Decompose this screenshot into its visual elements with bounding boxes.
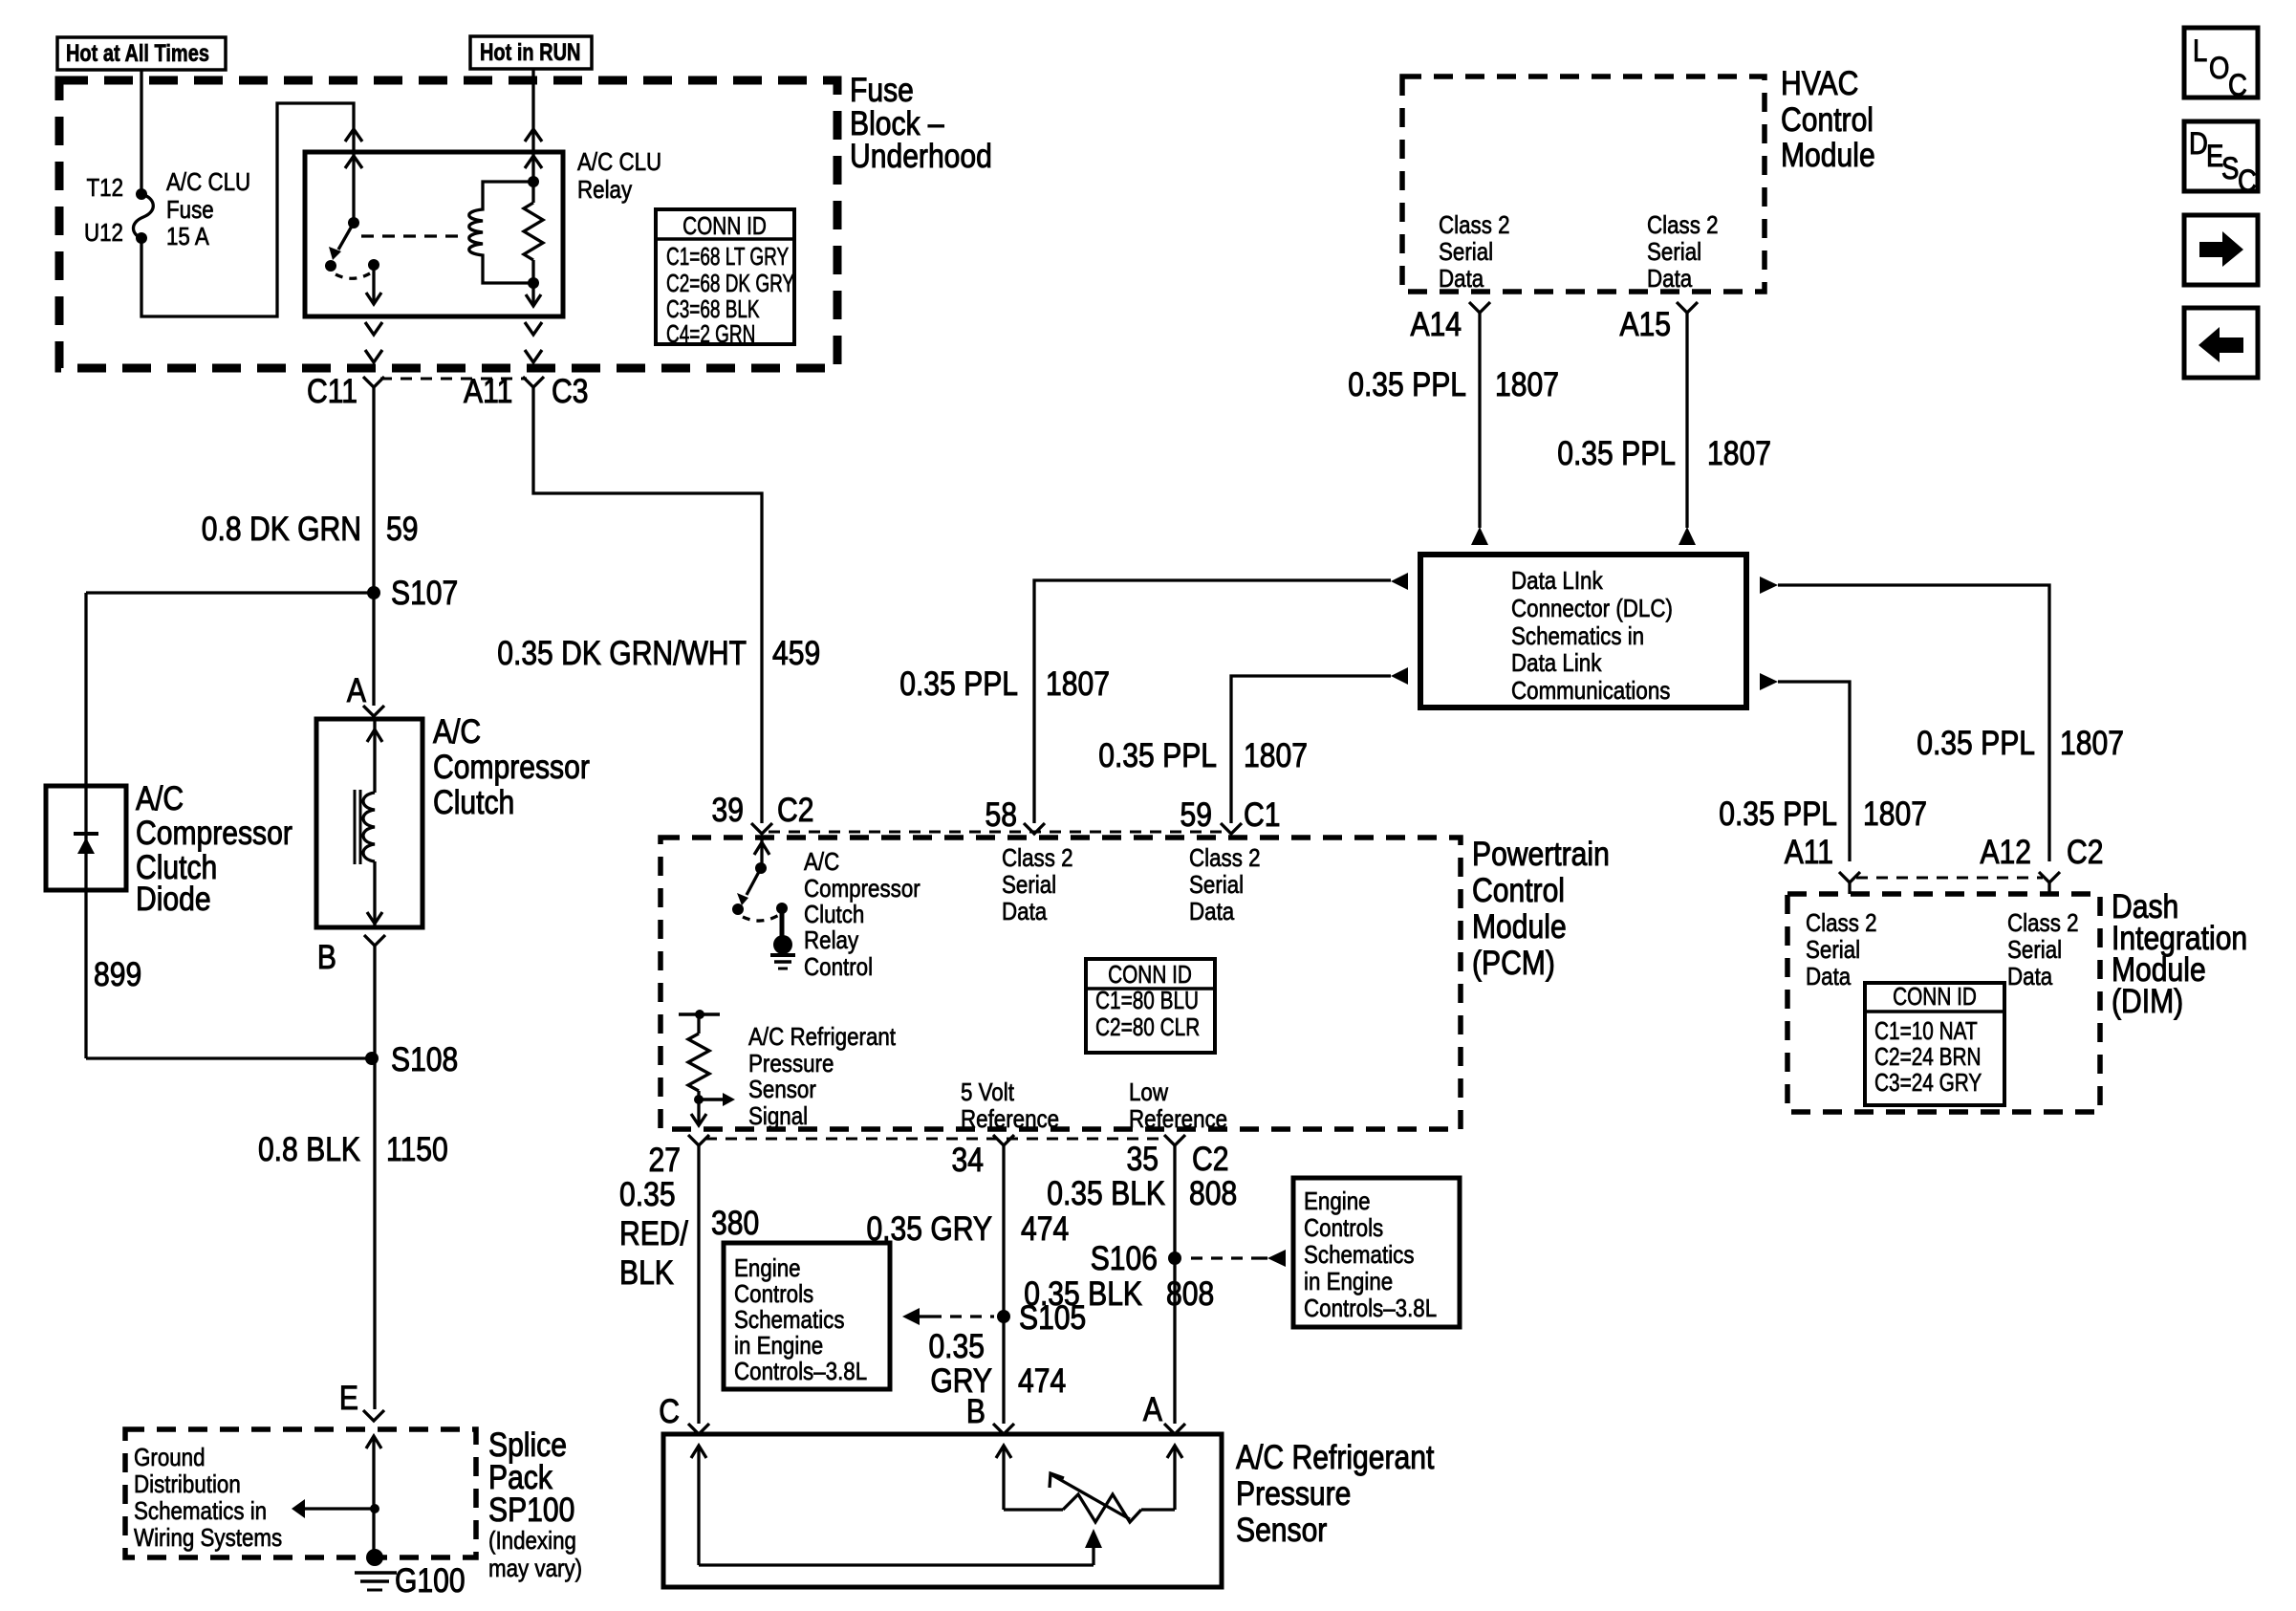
svg-text:Data: Data — [1189, 898, 1235, 925]
svg-text:Controls: Controls — [1304, 1214, 1383, 1242]
svg-text:G100: G100 — [395, 1561, 466, 1600]
svg-text:CONN ID: CONN ID — [1108, 961, 1192, 989]
svg-text:0.35 GRY: 0.35 GRY — [866, 1209, 992, 1248]
svg-text:Reference: Reference — [1129, 1105, 1227, 1133]
svg-text:(PCM): (PCM) — [1472, 944, 1555, 982]
svg-text:Control: Control — [804, 953, 873, 981]
svg-text:C1=68 LT GRY: C1=68 LT GRY — [666, 242, 789, 271]
svg-text:A/C: A/C — [136, 779, 184, 817]
svg-text:Ground: Ground — [134, 1444, 206, 1471]
svg-text:35: 35 — [1127, 1140, 1159, 1178]
svg-text:Reference: Reference — [961, 1105, 1059, 1133]
svg-text:Hot at All Times: Hot at All Times — [66, 40, 209, 67]
svg-text:808: 808 — [1189, 1174, 1237, 1212]
svg-text:Low: Low — [1129, 1078, 1168, 1106]
svg-text:474: 474 — [1021, 1209, 1069, 1248]
svg-text:Schematics in: Schematics in — [134, 1497, 267, 1525]
svg-text:Clutch: Clutch — [433, 783, 514, 821]
svg-text:A/C: A/C — [433, 712, 481, 751]
svg-text:in Engine: in Engine — [1304, 1268, 1393, 1295]
svg-text:Pressure: Pressure — [748, 1050, 834, 1078]
svg-text:474: 474 — [1018, 1361, 1066, 1400]
svg-text:C2=68 DK GRY: C2=68 DK GRY — [666, 269, 794, 297]
svg-text:C2=80 CLR: C2=80 CLR — [1095, 1013, 1200, 1041]
svg-text:Schematics: Schematics — [1304, 1241, 1415, 1269]
svg-text:0.35: 0.35 — [928, 1327, 985, 1365]
svg-text:A: A — [1143, 1390, 1162, 1428]
svg-text:may vary): may vary) — [488, 1555, 582, 1582]
svg-text:Sensor: Sensor — [1236, 1511, 1327, 1549]
svg-text:B: B — [966, 1392, 986, 1430]
svg-text:C: C — [659, 1392, 680, 1430]
svg-text:0.35 DK GRN/WHT: 0.35 DK GRN/WHT — [497, 634, 747, 672]
svg-text:Compressor: Compressor — [433, 748, 590, 786]
svg-text:459: 459 — [772, 634, 820, 672]
svg-text:0.8 BLK: 0.8 BLK — [258, 1130, 360, 1168]
svg-text:Class 2: Class 2 — [2007, 909, 2079, 937]
svg-text:Signal: Signal — [748, 1102, 808, 1130]
svg-text:Diode: Diode — [136, 880, 211, 918]
svg-text:Controls–3.8L: Controls–3.8L — [1304, 1295, 1437, 1322]
svg-text:59: 59 — [386, 510, 418, 548]
svg-text:C: C — [2228, 69, 2247, 102]
svg-text:Class 2: Class 2 — [1189, 844, 1261, 872]
svg-text:(Indexing: (Indexing — [488, 1527, 576, 1555]
svg-text:0.35 PPL: 0.35 PPL — [1348, 365, 1466, 403]
svg-text:Controls: Controls — [734, 1280, 813, 1308]
svg-text:1150: 1150 — [386, 1130, 448, 1168]
svg-text:A/C CLU: A/C CLU — [166, 168, 250, 196]
svg-text:S107: S107 — [391, 574, 458, 612]
svg-text:34: 34 — [952, 1141, 984, 1179]
svg-text:39: 39 — [712, 791, 744, 829]
svg-text:Engine: Engine — [1304, 1187, 1371, 1215]
svg-text:C1=10 NAT: C1=10 NAT — [1874, 1017, 1978, 1045]
svg-text:Powertrain: Powertrain — [1472, 835, 1610, 873]
svg-text:Data: Data — [1647, 265, 1693, 293]
svg-text:Class 2: Class 2 — [1002, 844, 1073, 872]
svg-text:1807: 1807 — [1046, 664, 1110, 703]
svg-text:Data: Data — [2007, 963, 2053, 991]
svg-text:T12: T12 — [86, 174, 123, 202]
svg-text:Relay: Relay — [577, 176, 633, 204]
svg-text:Pressure: Pressure — [1236, 1474, 1351, 1513]
svg-text:Serial: Serial — [1647, 238, 1701, 266]
svg-text:C2=24 BRN: C2=24 BRN — [1874, 1043, 1982, 1071]
svg-text:A/C CLU: A/C CLU — [577, 148, 661, 176]
svg-text:Serial: Serial — [1439, 238, 1493, 266]
svg-text:Connector (DLC): Connector (DLC) — [1511, 595, 1673, 622]
svg-text:Class 2: Class 2 — [1647, 211, 1719, 239]
svg-text:59: 59 — [1180, 795, 1212, 834]
svg-text:A/C Refrigerant: A/C Refrigerant — [1236, 1438, 1434, 1476]
svg-text:380: 380 — [711, 1204, 759, 1242]
svg-text:Engine: Engine — [734, 1254, 801, 1282]
svg-text:A/C: A/C — [804, 848, 839, 876]
svg-text:Fuse: Fuse — [850, 71, 914, 109]
svg-text:Control: Control — [1781, 100, 1874, 139]
svg-text:C1: C1 — [1244, 795, 1280, 834]
svg-text:C1=80 BLU: C1=80 BLU — [1095, 987, 1199, 1014]
svg-text:CONN ID: CONN ID — [682, 212, 767, 240]
svg-text:S: S — [2221, 152, 2239, 185]
svg-text:C4=2 GRN: C4=2 GRN — [666, 319, 755, 348]
svg-text:Sensor: Sensor — [748, 1076, 816, 1103]
svg-text:A15: A15 — [1619, 305, 1671, 343]
svg-text:D: D — [2189, 127, 2208, 161]
svg-text:0.35 PPL: 0.35 PPL — [1098, 736, 1217, 774]
svg-text:E: E — [339, 1379, 358, 1417]
svg-text:1807: 1807 — [1707, 434, 1771, 472]
svg-text:RED/: RED/ — [619, 1214, 689, 1252]
svg-text:SP100: SP100 — [488, 1491, 574, 1529]
svg-text:in Engine: in Engine — [734, 1332, 823, 1360]
svg-text:Serial: Serial — [1806, 936, 1860, 964]
svg-text:Compressor: Compressor — [136, 814, 292, 852]
svg-text:C2: C2 — [777, 791, 813, 829]
svg-text:1807: 1807 — [1495, 365, 1559, 403]
svg-text:0.35 BLK: 0.35 BLK — [1024, 1274, 1142, 1313]
svg-text:899: 899 — [94, 955, 141, 993]
svg-text:A/C Refrigerant: A/C Refrigerant — [748, 1023, 896, 1051]
svg-text:Data: Data — [1806, 963, 1852, 991]
svg-text:1807: 1807 — [1244, 736, 1308, 774]
svg-text:1807: 1807 — [2060, 724, 2124, 762]
svg-text:C2: C2 — [1192, 1140, 1228, 1178]
svg-text:Class 2: Class 2 — [1806, 909, 1877, 937]
svg-text:Data: Data — [1439, 265, 1484, 293]
svg-text:C3=24 GRY: C3=24 GRY — [1874, 1069, 1982, 1097]
svg-text:BLK: BLK — [619, 1253, 674, 1292]
svg-text:Compressor: Compressor — [804, 875, 921, 903]
svg-text:0.35 PPL: 0.35 PPL — [1917, 724, 2035, 762]
svg-text:15 A: 15 A — [166, 223, 210, 250]
svg-text:Fuse: Fuse — [166, 196, 214, 224]
svg-text:Module: Module — [1472, 907, 1567, 946]
svg-text:Communications: Communications — [1511, 677, 1670, 705]
svg-text:0.35 PPL: 0.35 PPL — [1719, 795, 1837, 833]
svg-text:A: A — [347, 671, 366, 709]
svg-text:Clutch: Clutch — [804, 901, 864, 928]
svg-text:Control: Control — [1472, 871, 1565, 909]
svg-text:5 Volt: 5 Volt — [961, 1078, 1014, 1106]
svg-text:Serial: Serial — [2007, 936, 2062, 964]
svg-text:Class 2: Class 2 — [1439, 211, 1510, 239]
svg-text:A11: A11 — [464, 372, 512, 410]
svg-text:Hot in RUN: Hot in RUN — [480, 39, 580, 66]
svg-text:Data Link: Data Link — [1511, 649, 1602, 677]
svg-text:A11: A11 — [1785, 833, 1833, 871]
svg-text:0.35: 0.35 — [619, 1175, 676, 1213]
svg-text:A14: A14 — [1410, 305, 1462, 343]
svg-text:S108: S108 — [391, 1040, 458, 1078]
svg-text:0.35 PPL: 0.35 PPL — [1557, 434, 1676, 472]
svg-text:B: B — [317, 938, 336, 976]
svg-text:(DIM): (DIM) — [2112, 982, 2183, 1020]
svg-text:Relay: Relay — [804, 926, 859, 954]
svg-text:Data LInk: Data LInk — [1511, 567, 1603, 595]
svg-text:Controls–3.8L: Controls–3.8L — [734, 1358, 867, 1385]
svg-text:O: O — [2209, 52, 2229, 85]
svg-text:L: L — [2193, 34, 2207, 68]
svg-text:S106: S106 — [1091, 1239, 1158, 1277]
svg-text:A12: A12 — [1980, 833, 2031, 871]
svg-text:CONN ID: CONN ID — [1893, 983, 1977, 1011]
svg-text:Underhood: Underhood — [850, 137, 992, 175]
svg-text:1807: 1807 — [1863, 795, 1927, 833]
svg-text:0.35 PPL: 0.35 PPL — [899, 664, 1018, 703]
svg-text:C: C — [2238, 164, 2257, 198]
svg-text:HVAC: HVAC — [1781, 64, 1858, 102]
svg-text:Schematics: Schematics — [734, 1306, 845, 1334]
svg-text:Wiring Systems: Wiring Systems — [134, 1524, 282, 1552]
svg-text:808: 808 — [1166, 1274, 1214, 1313]
svg-text:Distribution: Distribution — [134, 1470, 241, 1498]
svg-text:Serial: Serial — [1189, 871, 1244, 899]
svg-text:C3: C3 — [552, 372, 588, 410]
svg-text:27: 27 — [649, 1141, 681, 1179]
svg-text:U12: U12 — [84, 219, 123, 247]
svg-text:C2: C2 — [2067, 833, 2103, 871]
svg-text:0.8 DK GRN: 0.8 DK GRN — [202, 510, 361, 548]
svg-text:Data: Data — [1002, 898, 1048, 925]
svg-text:Module: Module — [1781, 136, 1875, 174]
svg-text:C11: C11 — [307, 372, 357, 410]
svg-text:Schematics in: Schematics in — [1511, 622, 1644, 650]
svg-text:58: 58 — [986, 795, 1017, 834]
svg-text:0.35 BLK: 0.35 BLK — [1047, 1174, 1165, 1212]
svg-text:Serial: Serial — [1002, 871, 1056, 899]
